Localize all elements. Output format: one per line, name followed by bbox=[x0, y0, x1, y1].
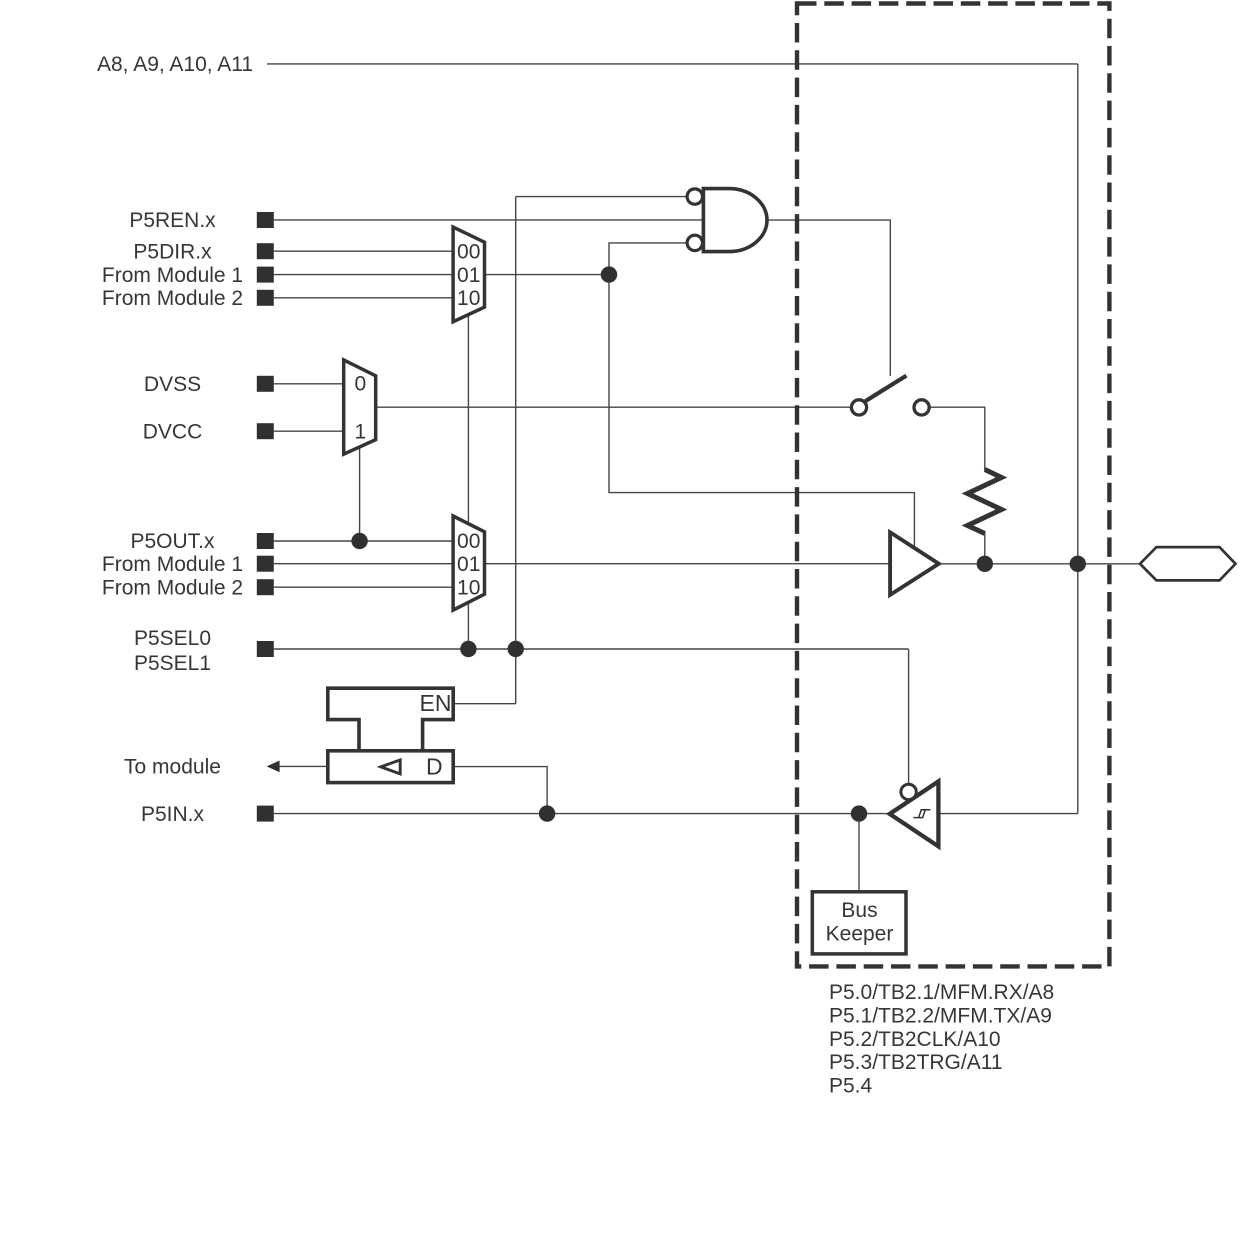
svg-text:D: D bbox=[426, 753, 443, 779]
bus keeper U7 bbox=[812, 892, 906, 954]
node pad column junction bbox=[1070, 556, 1086, 572]
pin DVCC bbox=[257, 423, 274, 439]
wire node to buffer enable bbox=[609, 275, 914, 550]
latch clock triangle bbox=[381, 760, 400, 774]
svg-text:1: 1 bbox=[354, 421, 366, 444]
svg-text:From Module 2: From Module 2 bbox=[102, 576, 243, 599]
pin From Module 2 (out) bbox=[257, 579, 274, 595]
wire DVCC to pull mux 1 bbox=[274, 430, 344, 432]
wire From Module 2 to mux 10 bbox=[274, 297, 453, 299]
svg-text:10: 10 bbox=[457, 287, 480, 310]
mux U2 pullup/pulldown select (0/1) bbox=[344, 360, 376, 454]
wire DVSS to pull mux 0 bbox=[274, 383, 344, 385]
pin P5OUT.x bbox=[257, 533, 274, 549]
wire P5SEL column vertical bbox=[515, 197, 517, 704]
pin P5SEL0/1 bbox=[257, 641, 274, 657]
wire P5DIR.x to mux 00 bbox=[274, 250, 453, 252]
node resistor / pad-line junction bbox=[977, 556, 993, 572]
node P5SEL column junction bbox=[508, 641, 524, 657]
wire Schmitt input from pad column bbox=[939, 813, 1078, 815]
svg-text:From Module 2: From Module 2 bbox=[102, 287, 243, 310]
pad hexagon bbox=[1140, 547, 1236, 580]
svg-text:00: 00 bbox=[457, 530, 480, 553]
svg-text:From Module 1: From Module 1 bbox=[102, 264, 243, 287]
latch U8 EN/D input latch bbox=[328, 688, 453, 782]
svg-text:00: 00 bbox=[457, 241, 480, 264]
switch S1 lever bbox=[865, 376, 906, 402]
wire P5IN.x run to Schmitt output bbox=[274, 813, 890, 815]
pin P5REN.x bbox=[257, 212, 274, 228]
wire From Module 2 to out mux 10 bbox=[274, 586, 453, 588]
mux U1 direction select (00/01/10) bbox=[453, 227, 484, 322]
wire buffer output to pad bbox=[939, 563, 1140, 565]
wire latch EN to P5SEL column bbox=[453, 703, 516, 705]
svg-text:DVSS: DVSS bbox=[144, 373, 201, 396]
mux U3 output select (00/01/10) bbox=[453, 516, 484, 610]
pin From Module 2 (dir) bbox=[257, 290, 274, 306]
svg-text:P5.1/TB2.2/MFM.TX/A9: P5.1/TB2.2/MFM.TX/A9 bbox=[829, 1004, 1052, 1027]
wire pull mux select to P5OUT node bbox=[359, 447, 361, 541]
wire NAND output to switch lever bbox=[767, 220, 890, 376]
pin From Module 1 (dir) bbox=[257, 267, 274, 283]
wire From Module 1 to mux 01 bbox=[274, 274, 453, 276]
wire P5SEL0/1 input run bbox=[274, 648, 909, 650]
pin P5IN.x bbox=[257, 806, 274, 822]
nand gate U4 bbox=[687, 189, 767, 252]
svg-text:P5.3/TB2TRG/A11: P5.3/TB2TRG/A11 bbox=[829, 1051, 1003, 1074]
wire A8-A11 horizontal to pad column bbox=[267, 63, 1078, 65]
wire pull mux output to switch bbox=[376, 406, 852, 408]
svg-text:01: 01 bbox=[457, 264, 480, 287]
dashed device boundary box bbox=[797, 4, 1109, 967]
svg-text:Bus: Bus bbox=[841, 899, 877, 922]
wire mux select column bbox=[467, 316, 469, 650]
switch S1 right contact bbox=[914, 400, 929, 415]
wire direction mux output to node bbox=[485, 274, 610, 276]
svg-text:P5SEL0: P5SEL0 bbox=[134, 627, 211, 650]
svg-text:0: 0 bbox=[354, 373, 366, 396]
pin From Module 1 (out) bbox=[257, 556, 274, 572]
svg-text:EN: EN bbox=[420, 690, 452, 716]
svg-text:P5OUT.x: P5OUT.x bbox=[130, 530, 215, 553]
nand input bubble bottom bbox=[687, 235, 702, 250]
wire P5IN node to bus keeper bbox=[858, 814, 860, 892]
schmitt trigger U6 bbox=[890, 781, 939, 846]
pin P5DIR.x bbox=[257, 243, 274, 259]
svg-text:Keeper: Keeper bbox=[826, 923, 894, 946]
wire latch D input from P5IN node bbox=[453, 767, 547, 814]
output driver U5 bbox=[890, 532, 939, 595]
pin DVSS bbox=[257, 376, 274, 392]
wire P5OUT.x to out mux 00 bbox=[274, 540, 453, 542]
node direction-mux output junction bbox=[601, 266, 617, 282]
svg-text:A8, A9, A10, A11: A8, A9, A10, A11 bbox=[97, 53, 253, 76]
wire resistor bottom to pad line bbox=[984, 533, 986, 564]
svg-text:To module: To module bbox=[124, 756, 221, 779]
wire From Module 1 to out mux 01 bbox=[274, 563, 453, 565]
svg-text:P5.4: P5.4 bbox=[829, 1075, 873, 1098]
svg-text:P5DIR.x: P5DIR.x bbox=[133, 240, 212, 263]
svg-text:P5REN.x: P5REN.x bbox=[129, 209, 216, 232]
svg-text:From Module 1: From Module 1 bbox=[102, 553, 243, 576]
svg-text:01: 01 bbox=[457, 553, 480, 576]
wire node to NAND lower bubble bbox=[609, 243, 688, 275]
svg-text:DVCC: DVCC bbox=[143, 420, 203, 443]
nand input bubble top bbox=[687, 189, 702, 204]
wire out mux output to buffer bbox=[485, 563, 892, 565]
node D-input / P5IN junction bbox=[539, 805, 555, 821]
node P5IN / bus-keeper junction bbox=[851, 805, 867, 821]
node mux-select / P5SEL junction bbox=[460, 641, 476, 657]
node P5OUT pull-select junction bbox=[351, 533, 367, 549]
schmitt enable bubble bbox=[901, 784, 916, 799]
svg-text:P5.2/TB2CLK/A10: P5.2/TB2CLK/A10 bbox=[829, 1028, 1001, 1051]
wire NAND upper bubble to P5SEL column bbox=[516, 196, 688, 198]
wire pad column vertical bbox=[1077, 64, 1079, 814]
arrow to module bbox=[267, 761, 328, 773]
schmitt hysteresis symbol bbox=[913, 810, 930, 818]
wire P5REN.x to NAND middle input bbox=[274, 219, 704, 221]
resistor R1 bbox=[968, 470, 1002, 534]
svg-text:10: 10 bbox=[457, 576, 480, 599]
switch S1 left contact bbox=[851, 400, 866, 415]
wire switch right terminal to resistor bbox=[929, 407, 985, 470]
svg-text:P5SEL1: P5SEL1 bbox=[134, 652, 211, 675]
wire P5SEL to Schmitt enable bubble bbox=[908, 649, 910, 785]
svg-text:P5IN.x: P5IN.x bbox=[141, 803, 205, 826]
svg-text:P5.0/TB2.1/MFM.RX/A8: P5.0/TB2.1/MFM.RX/A8 bbox=[829, 981, 1054, 1004]
